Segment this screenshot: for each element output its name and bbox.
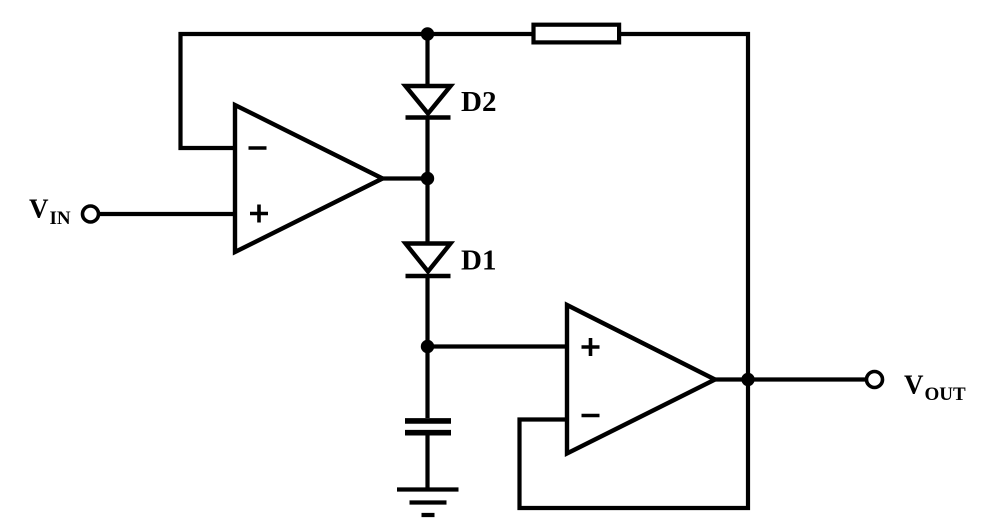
svg-text:V: V [904, 370, 924, 400]
U1 plus sign [250, 205, 268, 223]
wire: VIN to U1 non-inverting input [100, 212, 235, 216]
svg-text:D2: D2 [461, 86, 496, 118]
ground [397, 490, 459, 516]
capacitor C1 [405, 421, 451, 433]
U1 minus sign [249, 146, 267, 150]
node B junction [421, 340, 434, 353]
node junction U2 output [741, 373, 754, 386]
diode D1 [406, 244, 451, 272]
wire: U2 output to VOUT terminal [715, 377, 865, 381]
svg-text:IN: IN [50, 208, 71, 229]
wire: D2 to node A to diode D1 [425, 118, 429, 244]
U2 plus sign [582, 338, 600, 356]
svg-text:V: V [29, 193, 49, 223]
resistor R1 [534, 25, 620, 43]
node junction top rail [421, 27, 434, 40]
diode D2 [406, 86, 451, 114]
op-amp U2 [567, 305, 715, 454]
terminal VIN [83, 206, 99, 222]
svg-text:OUT: OUT [925, 384, 967, 405]
wire: D1 to node B to capacitor C1 [425, 276, 429, 418]
wire: node B to U2 non-inverting input [428, 344, 568, 348]
wire: capacitor to ground [425, 436, 429, 490]
wire: U1 output to node A [383, 176, 428, 180]
wire: top rail from resistor to right rail down to bottom feedback [520, 34, 749, 508]
terminal VOUT [867, 372, 883, 388]
wire: op-amp U1 inverting-input feedback to top rail [181, 34, 532, 148]
op-amp U1 [235, 105, 383, 252]
svg-text:D1: D1 [461, 245, 496, 277]
wire: top node down to diode D2 [425, 34, 429, 86]
node A junction U1 output [421, 172, 434, 185]
U2 minus sign [582, 414, 600, 418]
